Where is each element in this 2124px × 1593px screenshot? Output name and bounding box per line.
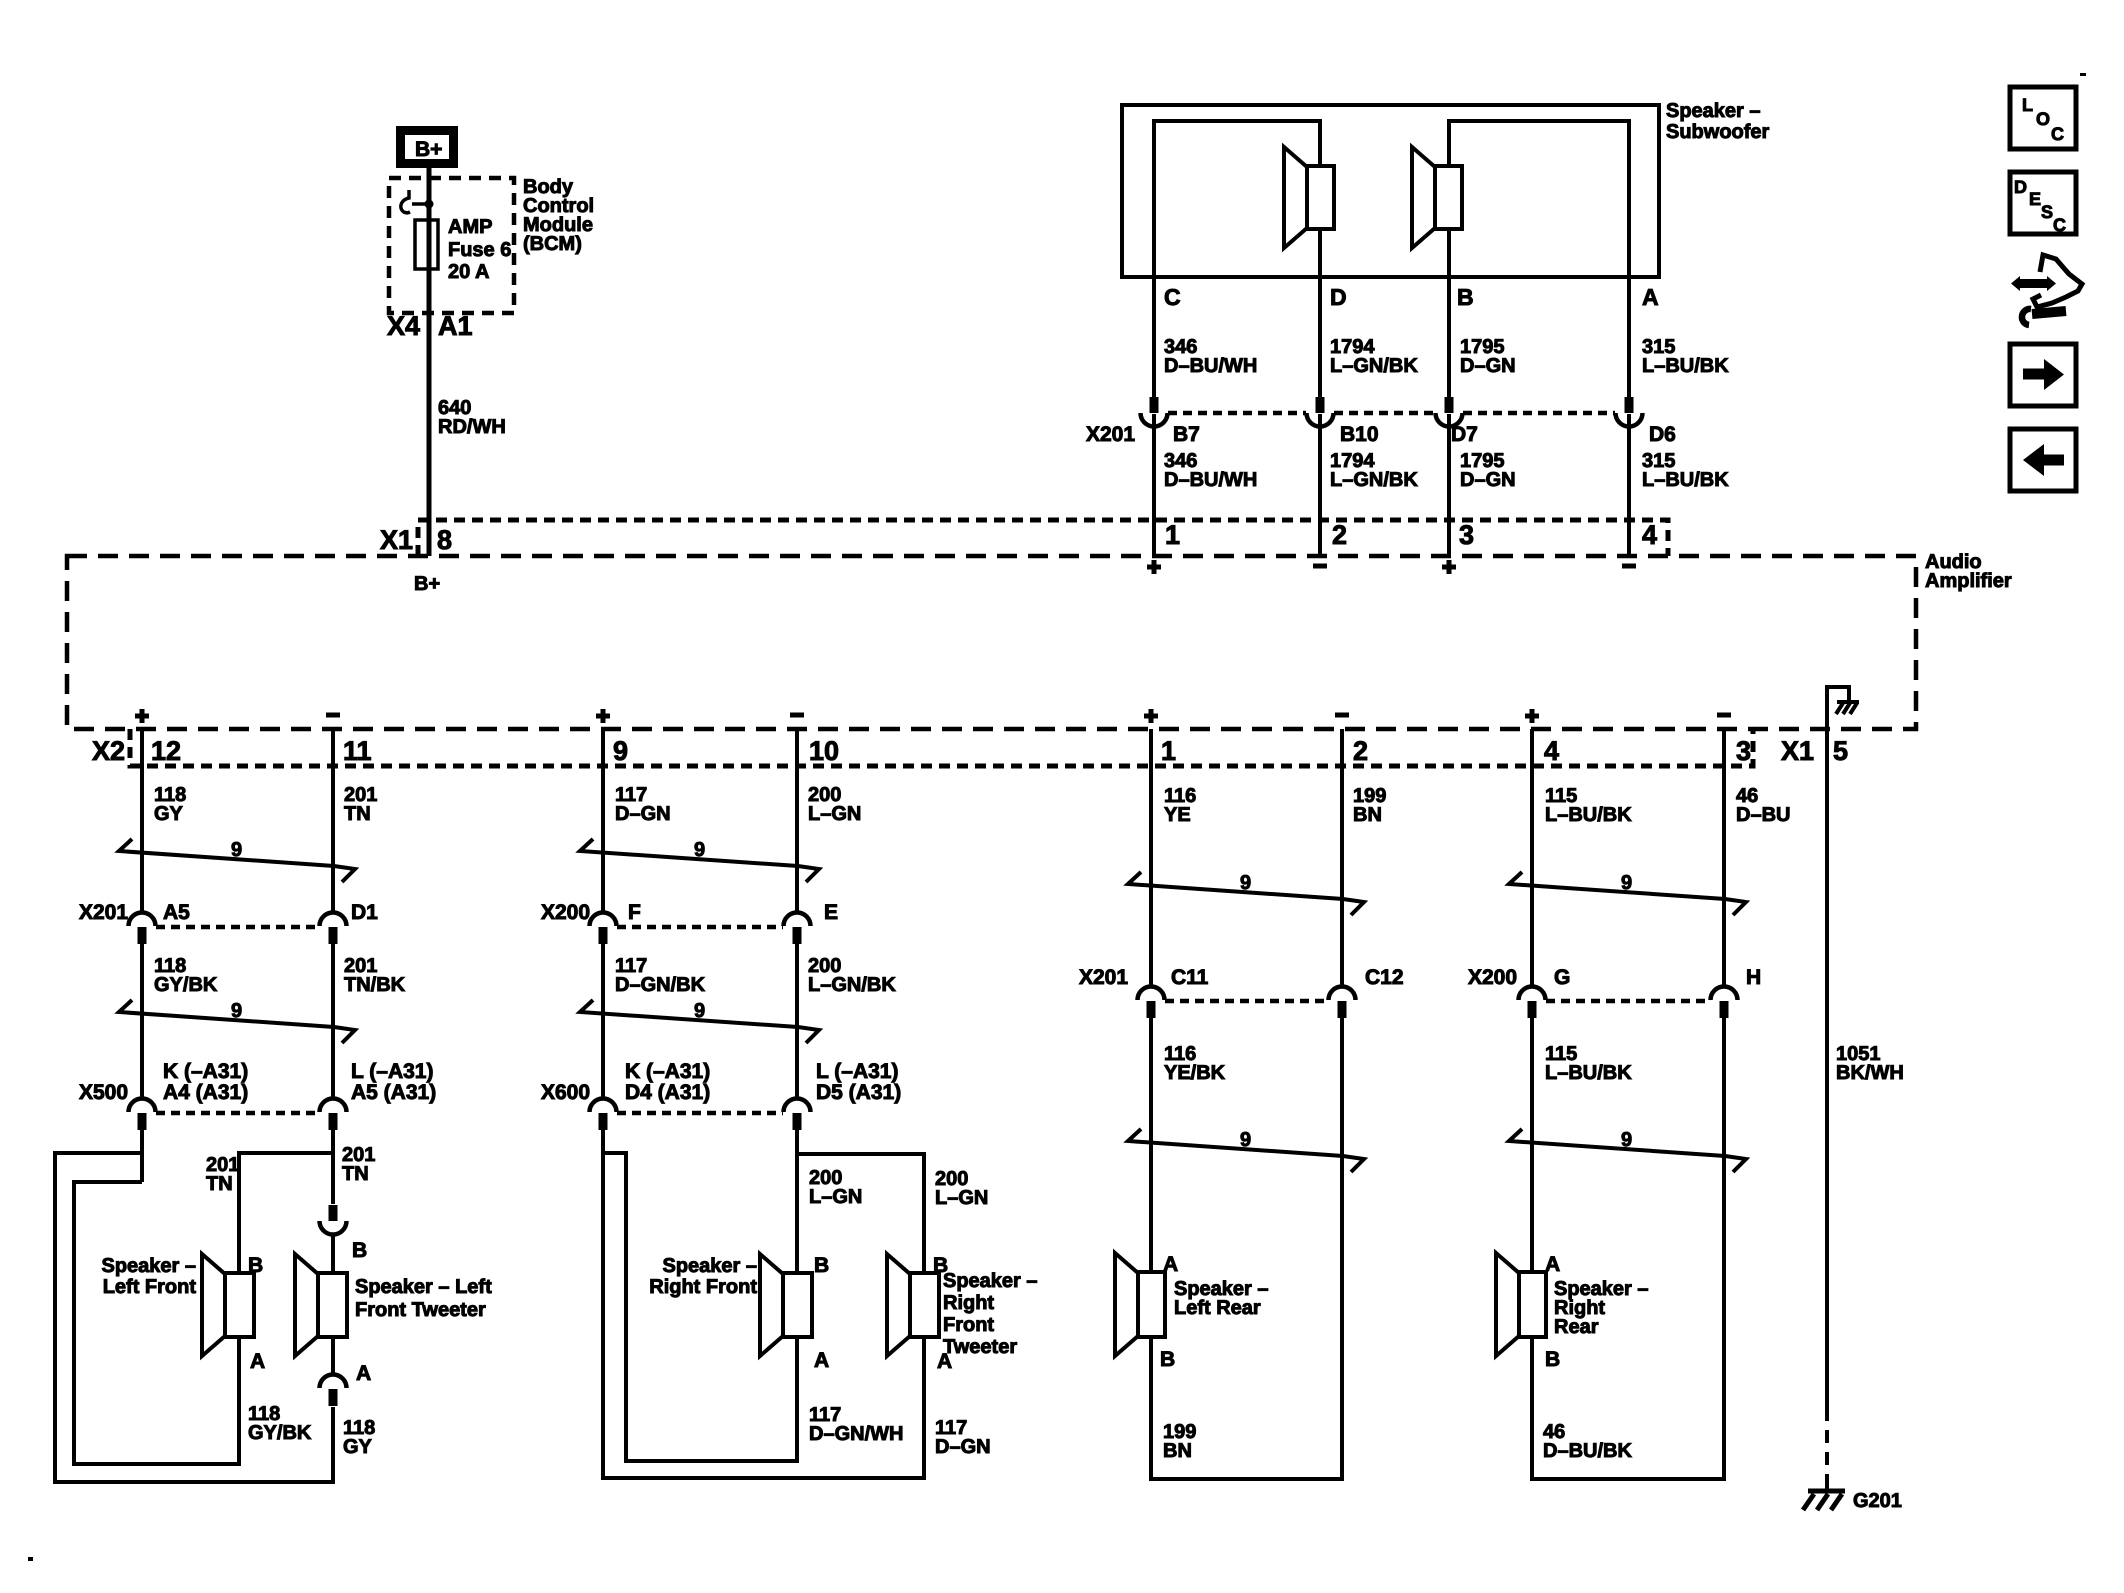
inline connector A (tweeter return) bbox=[320, 1337, 372, 1406]
svg-text:L–GN/BK: L–GN/BK bbox=[808, 974, 896, 996]
svg-text:B: B bbox=[1457, 284, 1474, 310]
svg-text:X201: X201 bbox=[1079, 966, 1128, 989]
svg-text:E: E bbox=[824, 901, 838, 924]
svg-text:10: 10 bbox=[809, 736, 839, 766]
right front door wiring: feed splits to speaker and tweeter bbox=[603, 1130, 924, 1478]
ground wire 1051 BK/WH bbox=[1827, 729, 1904, 1484]
wire 46 D-BU/BK return loop bbox=[1532, 1018, 1724, 1479]
svg-text:A5 (A31): A5 (A31) bbox=[351, 1081, 436, 1104]
svg-text:Front: Front bbox=[943, 1314, 994, 1336]
svg-text:A1: A1 bbox=[438, 311, 473, 341]
switch contact inside BCM bbox=[401, 190, 434, 213]
Speaker - Right Front Tweeter bbox=[887, 1254, 1038, 1373]
svg-text:9: 9 bbox=[1240, 872, 1251, 894]
svg-text:X200: X200 bbox=[541, 901, 590, 924]
wire 201 TN branch to left front speaker bbox=[206, 1130, 333, 1273]
svg-text:L–BU/BK: L–BU/BK bbox=[1642, 469, 1729, 491]
svg-text:12: 12 bbox=[151, 736, 181, 766]
subwoofer pin letters C D B A bbox=[1164, 284, 1659, 310]
Speaker - Right Front bbox=[649, 1254, 829, 1372]
svg-text:9: 9 bbox=[1621, 1129, 1632, 1151]
svg-text:X1: X1 bbox=[1781, 736, 1814, 766]
svg-text:Speaker –: Speaker – bbox=[1666, 100, 1761, 122]
svg-text:G: G bbox=[1554, 966, 1570, 989]
svg-text:D–GN: D–GN bbox=[615, 803, 671, 825]
page mark bottom left bbox=[28, 1557, 33, 1561]
svg-text:Speaker – Left: Speaker – Left bbox=[355, 1276, 492, 1298]
twisted pair symbol 9 (pair 2 lower) bbox=[580, 1000, 819, 1043]
subwoofer wires to amplifier pins bbox=[1154, 414, 1629, 556]
wire label 640 RD/WH bbox=[438, 397, 506, 438]
amplifier bottom polarity signs bbox=[135, 709, 1731, 723]
svg-text:B: B bbox=[814, 1254, 829, 1277]
svg-text:11: 11 bbox=[343, 736, 372, 766]
inline connector B (tweeter feed) bbox=[320, 1205, 368, 1273]
svg-text:9: 9 bbox=[694, 839, 705, 861]
svg-text:B10: B10 bbox=[1340, 423, 1379, 446]
wire 117 D-GN/BK bbox=[603, 944, 706, 1099]
twisted pair symbol 9 (pair 2 upper) bbox=[580, 839, 819, 882]
svg-text:Right: Right bbox=[943, 1292, 994, 1314]
svg-text:GY/BK: GY/BK bbox=[248, 1422, 312, 1444]
wire 200 L-GN branch to right front tweeter bbox=[797, 1130, 924, 1273]
wire 46 D-BU (amp X2-3 to X200 H) bbox=[1724, 729, 1790, 987]
wire 201 TN to tweeter bbox=[342, 1144, 375, 1185]
svg-text:YE: YE bbox=[1164, 804, 1191, 826]
svg-text:L–BU/BK: L–BU/BK bbox=[1642, 355, 1729, 377]
svg-text:3: 3 bbox=[1459, 520, 1474, 550]
svg-text:L (–A31): L (–A31) bbox=[816, 1060, 898, 1083]
svg-text:4: 4 bbox=[1642, 520, 1657, 550]
connector X201 row pins A5 / D1 bbox=[79, 901, 378, 944]
svg-text:L–GN: L–GN bbox=[809, 1186, 862, 1208]
svg-text:TN: TN bbox=[206, 1173, 233, 1195]
svg-text:D–GN/BK: D–GN/BK bbox=[615, 974, 706, 996]
Speaker - Left Rear bbox=[1115, 1253, 1269, 1371]
svg-text:Front Tweeter: Front Tweeter bbox=[355, 1299, 486, 1321]
wire 118 GY/BK label (speaker return) bbox=[248, 1403, 312, 1444]
svg-text:Tweeter: Tweeter bbox=[943, 1336, 1017, 1358]
ground G201 bbox=[1803, 1480, 1902, 1512]
svg-text:Left Front: Left Front bbox=[103, 1276, 197, 1298]
wire 117 D-GN (amp X2-9 to X200 F) bbox=[603, 729, 671, 913]
svg-text:Left Rear: Left Rear bbox=[1174, 1297, 1261, 1319]
svg-text:O: O bbox=[2036, 109, 2050, 129]
svg-text:D–GN: D–GN bbox=[1460, 469, 1516, 491]
svg-text:C: C bbox=[2053, 215, 2066, 235]
svg-text:G201: G201 bbox=[1853, 1490, 1902, 1512]
twisted pair symbol 9 (pair 4 lower) bbox=[1509, 1129, 1746, 1172]
Speaker - Left Front Tweeter bbox=[295, 1254, 492, 1356]
svg-text:A: A bbox=[814, 1349, 829, 1372]
wire labels 346 D-BU/WH, 1794 L-GN/BK, 1795 D-GN, 315 L-BU/BK (amp side) bbox=[1164, 450, 1729, 491]
svg-text:(BCM): (BCM) bbox=[523, 233, 582, 255]
svg-text:TN/BK: TN/BK bbox=[344, 974, 406, 996]
wire B+ feed to BCM fuse (640 circuit) bbox=[427, 168, 432, 556]
forward arrow icon box bbox=[2010, 344, 2076, 406]
svg-text:L–BU/BK: L–BU/BK bbox=[1545, 804, 1632, 826]
svg-text:X201: X201 bbox=[1086, 423, 1135, 446]
twisted pair symbol 9 (pair 3 upper) bbox=[1128, 872, 1364, 915]
svg-text:9: 9 bbox=[694, 1000, 705, 1022]
wire 199 BN return loop bbox=[1151, 1018, 1342, 1479]
svg-text:D–BU: D–BU bbox=[1736, 804, 1790, 826]
subwoofer internal wiring loops bbox=[1154, 121, 1629, 277]
svg-text:A4 (A31): A4 (A31) bbox=[163, 1081, 248, 1104]
svg-text:B7: B7 bbox=[1173, 423, 1200, 446]
Speaker - Left Front bbox=[101, 1254, 265, 1373]
svg-text:A: A bbox=[1545, 1253, 1560, 1276]
wire 200 L-GN/BK bbox=[797, 944, 896, 1099]
subwoofer speaker element 2 bbox=[1412, 147, 1462, 248]
svg-text:RD/WH: RD/WH bbox=[438, 416, 506, 438]
svg-text:D–GN: D–GN bbox=[1460, 355, 1516, 377]
svg-text:5: 5 bbox=[1833, 736, 1848, 766]
svg-text:B: B bbox=[1545, 1348, 1560, 1371]
svg-text:X600: X600 bbox=[541, 1081, 590, 1104]
svg-text:BN: BN bbox=[1353, 804, 1382, 826]
svg-text:D–BU/WH: D–BU/WH bbox=[1164, 469, 1257, 491]
svg-text:A: A bbox=[250, 1350, 265, 1373]
svg-text:9: 9 bbox=[1621, 872, 1632, 894]
svg-text:A5: A5 bbox=[163, 901, 190, 924]
svg-text:BK/WH: BK/WH bbox=[1836, 1062, 1904, 1084]
svg-text:C11: C11 bbox=[1171, 966, 1209, 989]
Audio Amplifier dashed box bbox=[67, 551, 2012, 729]
svg-text:L–GN/BK: L–GN/BK bbox=[1330, 355, 1418, 377]
wire 117 D-GN/WH label bbox=[809, 1404, 903, 1445]
svg-text:A: A bbox=[1163, 1253, 1178, 1276]
subwoofer wires to X201 bbox=[1154, 277, 1629, 398]
DESC icon box bbox=[2010, 172, 2076, 235]
svg-text:AMP: AMP bbox=[448, 216, 492, 238]
connector X200 row pins F / E bbox=[541, 901, 838, 944]
svg-text:GY: GY bbox=[343, 1436, 373, 1458]
svg-text:1: 1 bbox=[1161, 736, 1176, 766]
svg-text:GY: GY bbox=[154, 803, 184, 825]
svg-text:B+: B+ bbox=[415, 138, 442, 161]
svg-text:D1: D1 bbox=[351, 901, 378, 924]
svg-text:X2: X2 bbox=[92, 736, 125, 766]
svg-text:D4 (A31): D4 (A31) bbox=[625, 1081, 710, 1104]
wire 118 GY/BK bbox=[142, 944, 218, 1099]
svg-text:C: C bbox=[1164, 284, 1181, 310]
svg-text:1: 1 bbox=[1165, 520, 1180, 550]
svg-text:D–BU/BK: D–BU/BK bbox=[1543, 1440, 1632, 1462]
svg-text:D–GN/WH: D–GN/WH bbox=[809, 1423, 903, 1445]
svg-text:D–BU/WH: D–BU/WH bbox=[1164, 355, 1257, 377]
wire 115 L-BU/BK (door side) bbox=[1532, 1018, 1632, 1272]
svg-text:8: 8 bbox=[437, 525, 452, 555]
svg-text:B: B bbox=[248, 1254, 263, 1277]
diagnostic icon (arrows and wrench) bbox=[2011, 255, 2082, 325]
svg-text:D6: D6 bbox=[1649, 423, 1676, 446]
svg-text:B+: B+ bbox=[414, 573, 440, 595]
svg-text:Right Front: Right Front bbox=[649, 1276, 757, 1298]
svg-text:H: H bbox=[1746, 966, 1761, 989]
svg-text:D7: D7 bbox=[1451, 423, 1478, 446]
svg-text:C: C bbox=[2051, 124, 2064, 144]
svg-text:B: B bbox=[1160, 1348, 1175, 1371]
svg-text:B: B bbox=[352, 1239, 367, 1262]
Speaker - Subwoofer box bbox=[1122, 100, 1770, 277]
svg-text:X1: X1 bbox=[380, 525, 413, 555]
wire 200 L-GN (amp X2-10 to X200 E) bbox=[797, 729, 861, 913]
svg-text:X4: X4 bbox=[387, 311, 420, 341]
amplifier X1 pin 5 (ground) bbox=[1781, 736, 1848, 766]
svg-text:20 A: 20 A bbox=[448, 261, 490, 283]
svg-text:L–GN: L–GN bbox=[808, 803, 861, 825]
svg-text:9: 9 bbox=[613, 736, 628, 766]
svg-text:C12: C12 bbox=[1365, 966, 1404, 989]
wire 118 GY (amp X2-12 to X201 A5) bbox=[142, 729, 186, 913]
amplifier internal ground symbol (case ground) bbox=[1827, 687, 1859, 729]
svg-text:Subwoofer: Subwoofer bbox=[1666, 121, 1770, 143]
svg-text:D: D bbox=[1330, 284, 1347, 310]
left front door wiring: feed splits to speaker and tweeter bbox=[55, 1130, 333, 1482]
svg-text:YE/BK: YE/BK bbox=[1164, 1062, 1226, 1084]
svg-text:TN: TN bbox=[344, 803, 371, 825]
amplifier X2 bottom pin row (dotted) bbox=[92, 729, 1753, 766]
svg-text:D: D bbox=[2014, 177, 2027, 197]
svg-text:TN: TN bbox=[342, 1163, 369, 1185]
wire 116 YE/BK bbox=[1151, 1018, 1226, 1272]
subwoofer speaker element 1 bbox=[1284, 147, 1334, 248]
fuse AMP Fuse 6 20 A bbox=[415, 216, 511, 283]
svg-text:3: 3 bbox=[1736, 736, 1751, 766]
connector X600 row pins D4 (A31) / D5 (A31) bbox=[541, 1060, 901, 1130]
amplifier X1 top pin row (dotted) bbox=[380, 520, 1668, 556]
connector X500 row pins A4 (A31) / A5 (A31) bbox=[79, 1060, 436, 1130]
svg-text:X200: X200 bbox=[1468, 966, 1517, 989]
back arrow icon box bbox=[2010, 429, 2076, 491]
svg-text:E: E bbox=[2029, 189, 2041, 209]
svg-text:Amplifier: Amplifier bbox=[1925, 570, 2012, 592]
svg-text:L (–A31): L (–A31) bbox=[351, 1060, 433, 1083]
svg-text:L–GN: L–GN bbox=[935, 1187, 988, 1209]
connector X201 row pins C11 / C12 bbox=[1079, 966, 1404, 1018]
Body Control Module (BCM) dashed box bbox=[389, 176, 594, 313]
twisted pair symbol 9 (pair 3 lower) bbox=[1128, 1129, 1364, 1172]
wire 201 TN/BK bbox=[333, 944, 406, 1099]
svg-text:X201: X201 bbox=[79, 901, 128, 924]
page mark top right bbox=[2080, 73, 2086, 76]
svg-text:GY/BK: GY/BK bbox=[154, 974, 218, 996]
twisted pair symbol 9 (pair 1 lower) bbox=[119, 1000, 355, 1043]
svg-text:4: 4 bbox=[1544, 736, 1559, 766]
svg-text:Speaker –: Speaker – bbox=[101, 1255, 196, 1277]
B+ power symbol box bbox=[401, 131, 454, 164]
wire 118 GY label (tweeter return) bbox=[343, 1417, 375, 1458]
wire 116 YE (amp X2-1 to X201 C11) bbox=[1151, 729, 1196, 987]
svg-text:K (–A31): K (–A31) bbox=[163, 1060, 248, 1083]
wire 117 D-GN label bbox=[935, 1417, 991, 1458]
svg-text:9: 9 bbox=[1240, 1129, 1251, 1151]
svg-text:F: F bbox=[628, 901, 641, 924]
wire 115 L-BU/BK (amp X2-4 to X200 G) bbox=[1532, 729, 1632, 987]
Speaker - Right Rear bbox=[1496, 1253, 1649, 1371]
svg-text:L: L bbox=[2022, 95, 2033, 115]
svg-text:9: 9 bbox=[231, 1000, 242, 1022]
svg-text:Rear: Rear bbox=[1554, 1316, 1599, 1338]
svg-text:Speaker –: Speaker – bbox=[662, 1255, 757, 1277]
wire 200 L-GN label (tweeter) bbox=[935, 1168, 988, 1209]
svg-text:9: 9 bbox=[231, 839, 242, 861]
wire 199 BN (amp X2-2 to X201 C12) bbox=[1342, 729, 1386, 987]
svg-text:2: 2 bbox=[1332, 520, 1347, 550]
twisted pair symbol 9 (pair 1 upper) bbox=[119, 839, 355, 882]
svg-text:X500: X500 bbox=[79, 1081, 128, 1104]
twisted pair symbol 9 (pair 4 upper) bbox=[1509, 872, 1746, 915]
connector X200 row pins G / H bbox=[1468, 966, 1761, 1018]
LOC icon box bbox=[2010, 87, 2076, 149]
svg-text:K (–A31): K (–A31) bbox=[625, 1060, 710, 1083]
BCM connector pins X4 / A1 bbox=[387, 311, 473, 341]
wire 201 TN (amp X2-11 to X201 D1) bbox=[333, 729, 377, 913]
svg-text:D5 (A31): D5 (A31) bbox=[816, 1081, 901, 1104]
wire labels 346 D-BU/WH, 1794 L-GN/BK, 1795 D-GN, 315 L-BU/BK bbox=[1164, 336, 1729, 377]
svg-text:2: 2 bbox=[1353, 736, 1368, 766]
svg-text:BN: BN bbox=[1163, 1440, 1192, 1462]
svg-text:Fuse 6: Fuse 6 bbox=[448, 239, 511, 261]
amplifier internal labels B+ and polarity signs (top) bbox=[414, 560, 1636, 595]
svg-text:A: A bbox=[1642, 284, 1659, 310]
svg-text:S: S bbox=[2041, 202, 2053, 222]
svg-text:D–GN: D–GN bbox=[935, 1436, 991, 1458]
connector X201 row (subwoofer side) bbox=[1086, 397, 1676, 446]
svg-text:L–GN/BK: L–GN/BK bbox=[1330, 469, 1418, 491]
svg-text:Speaker –: Speaker – bbox=[943, 1270, 1038, 1292]
svg-text:L–BU/BK: L–BU/BK bbox=[1545, 1062, 1632, 1084]
svg-text:A: A bbox=[356, 1362, 371, 1385]
